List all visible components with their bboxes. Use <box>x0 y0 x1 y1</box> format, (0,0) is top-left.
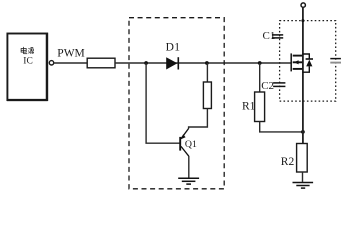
svg-text:D1: D1 <box>166 41 181 53</box>
wire node B down to resistor <box>206 63 208 82</box>
wire resistor bottom to Q1 emitter <box>189 109 208 129</box>
svg-text:IC: IC <box>23 57 33 67</box>
capacitor Cds (on dotted right edge) <box>330 59 341 63</box>
input resistor (unlabeled, horizontal) <box>87 58 115 68</box>
node B junction dot (resistor branch) <box>205 61 209 65</box>
body diode of Q2 <box>303 54 314 72</box>
node D junction dot (source/R2) <box>301 130 305 134</box>
transistor Q1 (PNP) <box>180 129 189 157</box>
ground G1 <box>178 178 199 184</box>
wire node C down to R1 <box>259 63 261 92</box>
svg-text:R1: R1 <box>242 100 256 112</box>
wire node A down to Q1 base <box>146 63 180 143</box>
电 <box>23 47 25 54</box>
capacitor C1 (gate-drain, on dotted edge) <box>272 35 283 38</box>
dotted box (MOSFET package) <box>280 21 336 102</box>
junction dot at dotted box top <box>301 19 304 22</box>
svg-text:Q1: Q1 <box>185 139 197 150</box>
wire R1 bottom to source node <box>260 122 303 132</box>
diode D1 <box>166 57 178 69</box>
dashed box (driver block) <box>129 18 224 189</box>
resistor in dashed box (unlabeled, vertical) <box>203 82 211 109</box>
wire R2 to ground <box>302 172 304 182</box>
源 <box>29 48 30 49</box>
resistor R2 <box>297 144 308 173</box>
svg-text:PWM: PWM <box>57 47 84 59</box>
node A junction dot <box>144 61 148 65</box>
terminal circle on IC box <box>49 61 53 65</box>
top terminal circle <box>301 3 305 7</box>
power IC box U1 <box>7 33 48 101</box>
main drain-source vertical wire <box>302 7 304 143</box>
wire from terminal to input resistor <box>54 62 87 64</box>
label 电源 (drawn glyphs) <box>21 47 33 54</box>
svg-text:C1: C1 <box>263 30 276 42</box>
MOSFET Q2 <box>291 53 302 71</box>
wire main horizontal to MOSFET gate <box>115 62 291 64</box>
capacitor C2 (gate-source, on dotted edge) <box>273 83 285 87</box>
resistor R1 <box>255 92 265 122</box>
wire Q1 collector down to ground <box>188 156 190 178</box>
ground G2 <box>293 183 314 189</box>
svg-text:R2: R2 <box>281 156 295 168</box>
svg-text:C2: C2 <box>261 80 274 92</box>
node C junction dot (R1 branch) <box>258 61 262 65</box>
